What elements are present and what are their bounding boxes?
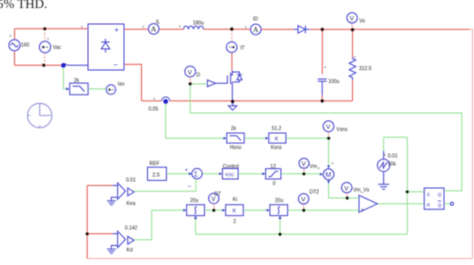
svg-text:M: M [325, 172, 331, 179]
svg-text:Vo: Vo [359, 19, 365, 25]
svg-text:Ksns: Ksns [271, 145, 283, 151]
svg-text:DT2: DT2 [310, 189, 320, 195]
svg-text:Vm: Vm [310, 164, 318, 170]
svg-text:Vm_Vs: Vm_Vs [353, 187, 370, 193]
svg-text:K: K [233, 209, 237, 215]
svg-text:IL: IL [156, 20, 160, 26]
svg-text:Vsns: Vsns [336, 127, 348, 133]
svg-text:+: + [47, 36, 50, 41]
svg-text:−: − [188, 183, 192, 190]
svg-text:0.05: 0.05 [149, 107, 159, 113]
svg-text:Σ: Σ [194, 170, 198, 178]
svg-text:+: + [317, 166, 320, 171]
svg-text:20u: 20u [275, 198, 284, 204]
svg-text:K(s): K(s) [225, 172, 234, 177]
svg-text:Vac: Vac [53, 45, 62, 51]
svg-text:0.142: 0.142 [125, 225, 138, 231]
svg-text:+: + [9, 33, 12, 38]
svg-text:Q: Q [438, 203, 442, 208]
svg-text:+: + [185, 168, 188, 174]
svg-text:0.01: 0.01 [126, 177, 136, 183]
svg-text:Kd: Kd [127, 247, 133, 253]
svg-text:312.5: 312.5 [359, 66, 372, 72]
svg-text:100u: 100u [328, 79, 339, 85]
svg-text:Kea: Kea [127, 201, 136, 207]
svg-text:50k: 50k [388, 162, 397, 168]
svg-text:DT: DT [214, 191, 221, 197]
svg-text:0.01: 0.01 [388, 153, 398, 159]
svg-text:Hsns: Hsns [230, 145, 242, 151]
svg-text:2k: 2k [74, 78, 80, 84]
svg-text:180u: 180u [193, 21, 204, 27]
svg-text:+: + [324, 65, 327, 70]
svg-text:K: K [275, 137, 279, 143]
svg-text:S: S [427, 192, 430, 197]
svg-text:Iav: Iav [118, 82, 125, 88]
svg-text:+: + [114, 26, 119, 35]
svg-text:0: 0 [273, 181, 276, 187]
svg-text:ID: ID [253, 16, 258, 22]
svg-text:+: + [153, 96, 156, 101]
svg-text:5% THD.: 5% THD. [0, 0, 47, 11]
svg-text:IT: IT [240, 45, 244, 51]
svg-text:12: 12 [270, 164, 276, 170]
svg-text:+: + [361, 207, 364, 213]
svg-text:2k: 2k [231, 126, 237, 132]
svg-text:+: + [384, 152, 387, 157]
svg-text:+: + [245, 25, 248, 30]
svg-text:Control: Control [223, 164, 239, 170]
svg-text:+: + [353, 55, 356, 60]
svg-text:D: D [197, 73, 201, 79]
svg-text:20u: 20u [190, 198, 199, 204]
svg-text:+: + [179, 24, 182, 29]
svg-text:+: + [142, 25, 145, 30]
svg-text:A: A [253, 25, 259, 34]
svg-text:+: + [331, 161, 334, 166]
svg-text:2: 2 [233, 219, 236, 225]
svg-text:+: + [81, 25, 84, 30]
svg-text:Q: Q [438, 192, 442, 197]
svg-text:REF: REF [149, 161, 159, 167]
svg-text:Ki: Ki [233, 197, 237, 203]
svg-text:160: 160 [21, 43, 30, 49]
svg-text:−: − [113, 60, 118, 69]
svg-text:A: A [151, 25, 157, 34]
svg-text:51.2: 51.2 [272, 126, 282, 132]
svg-text:2.5: 2.5 [152, 172, 160, 178]
